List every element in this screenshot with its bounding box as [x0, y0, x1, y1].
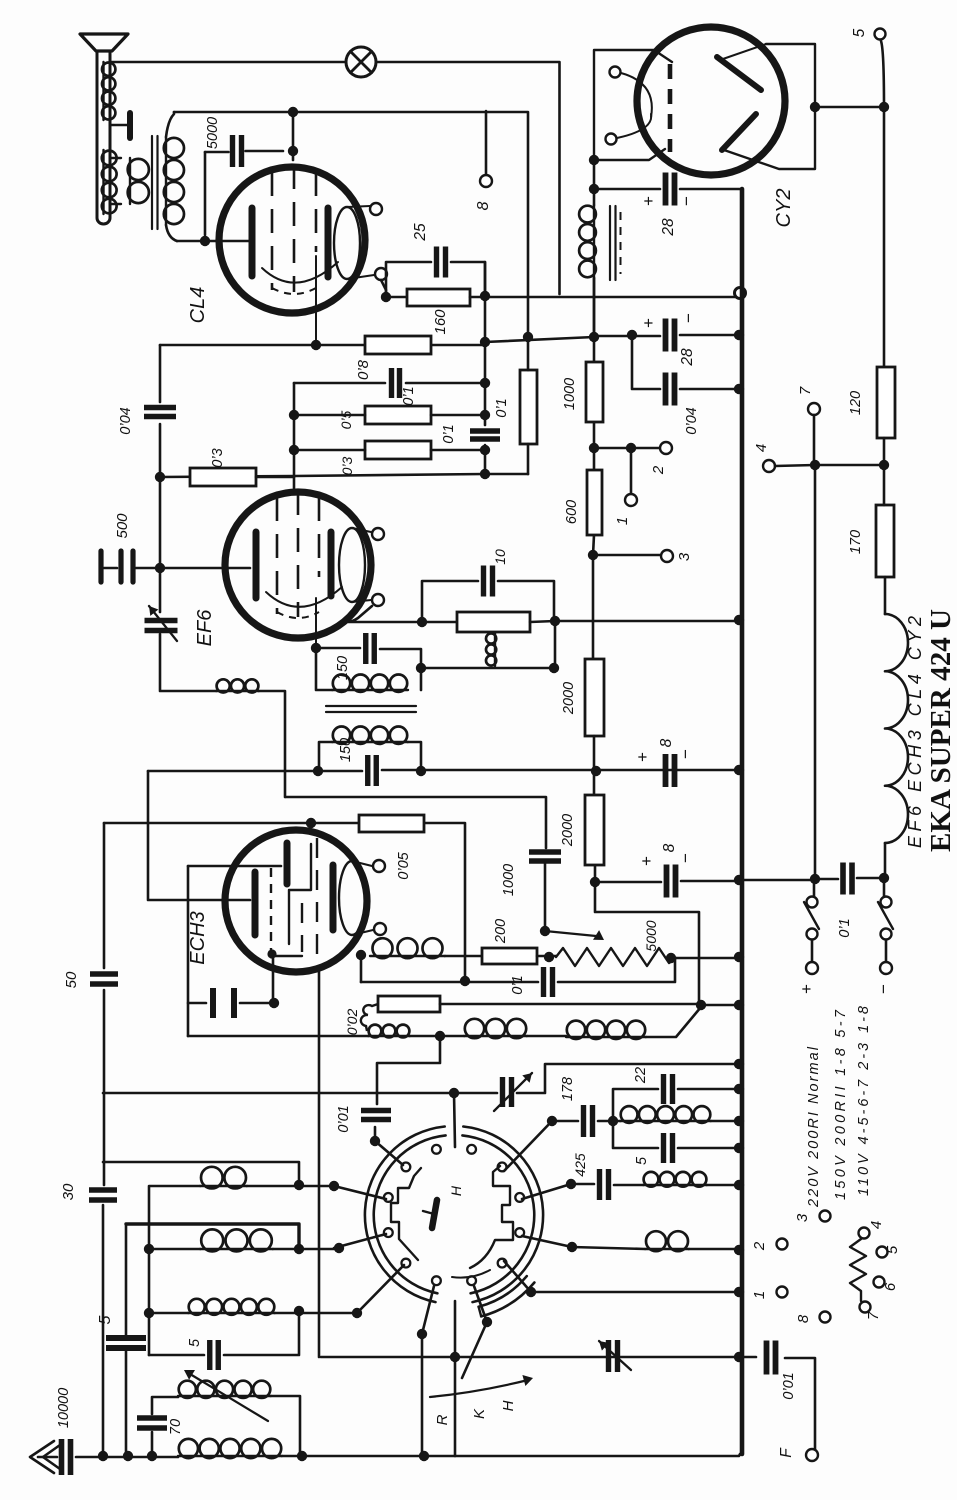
svg-text:1000: 1000	[562, 378, 578, 410]
node 2000 bottom rail	[591, 766, 601, 776]
wire lamp to heater drop line	[376, 62, 560, 294]
wire IF2 primary left riser	[316, 648, 332, 690]
heater chain bumps	[885, 614, 908, 843]
node 318/771	[313, 766, 323, 776]
node 815/879	[810, 874, 820, 884]
wire screen rail y=295	[470, 296, 740, 299]
wire CY2 to terminal 5 line	[815, 106, 884, 109]
svg-text:30: 30	[60, 1183, 77, 1200]
variable coil arrow	[190, 1374, 268, 1421]
band switch right cam	[470, 1166, 513, 1268]
node 160/477	[155, 472, 165, 482]
capacitor 178 wire	[552, 1120, 613, 1123]
node CL4 internal drop	[311, 340, 321, 350]
svg-text:H: H	[448, 1185, 464, 1196]
loudspeaker LS1 cone	[80, 34, 128, 51]
svg-text:425: 425	[572, 1153, 588, 1177]
wire cap 0.04 HT	[632, 335, 739, 389]
node bus/335	[734, 330, 744, 340]
CL4 anode bar	[325, 208, 332, 277]
node 594/448	[589, 443, 599, 453]
capacitor 5a big	[106, 1338, 146, 1348]
ECH3 grid dashes	[270, 868, 272, 950]
node bus/620	[734, 615, 744, 625]
svg-text:5000: 5000	[205, 117, 221, 149]
node 422/1334	[417, 1329, 427, 1339]
svg-text:160: 160	[432, 309, 449, 335]
svg-text:0’02: 0’02	[344, 1009, 360, 1036]
resistor 200	[482, 948, 537, 964]
capacitor 0.04 coupling	[144, 408, 176, 417]
node 485/383	[480, 378, 490, 388]
wire 0.1M leads	[527, 337, 530, 474]
wire EF6 anode to damping resistor	[348, 606, 457, 622]
band switch rotor bar	[432, 1200, 437, 1228]
CL4 internal screen lead to lower node	[315, 256, 317, 345]
svg-text:6: 6	[882, 1282, 899, 1291]
wire T1 primary bottom to CL4 cathode	[166, 225, 177, 241]
mains switch pole B	[883, 878, 886, 896]
capacitor 10000 antenna	[62, 1439, 71, 1475]
svg-text:4: 4	[868, 1221, 885, 1229]
wire AVC rail y=475	[160, 474, 528, 477]
capacitor 0.1b on riser	[470, 431, 500, 439]
wire grid resistor to EF6 top	[256, 477, 294, 493]
node CY2 cathode corner	[589, 155, 599, 165]
svg-text:0’04: 0’04	[118, 407, 134, 434]
svg-text:70: 70	[168, 1419, 184, 1435]
wire IF2 secondary right riser	[408, 742, 421, 771]
capacitor 50	[90, 974, 118, 984]
svg-text:+: +	[637, 856, 656, 866]
svg-text:10000: 10000	[56, 1388, 72, 1428]
variable antenna coil	[178, 1395, 271, 1397]
svg-text:+: +	[639, 196, 658, 206]
svg-text:EKA SUPER 424 U: EKA SUPER 424 U	[925, 609, 957, 852]
svg-text:2: 2	[650, 465, 667, 475]
CL4 pin circle top	[370, 203, 382, 215]
node 0.1M top	[523, 332, 533, 342]
svg-text:7: 7	[797, 386, 814, 395]
svg-text:−: −	[676, 853, 695, 863]
capacitor 70	[137, 1418, 167, 1428]
svg-text:200: 200	[493, 919, 509, 944]
svg-text:170: 170	[848, 530, 864, 554]
node grid/5000 junction	[288, 146, 298, 156]
node pot right	[666, 953, 676, 963]
wire speaker to dial lamp	[110, 61, 346, 64]
node 884/878	[879, 873, 889, 883]
node 594/189	[589, 184, 599, 194]
wire contact to 0.01 osc cap	[375, 1141, 403, 1165]
resistor 0.02 grid leak	[378, 996, 440, 1012]
svg-text:8: 8	[475, 201, 492, 210]
wire 120 to node4	[883, 438, 886, 465]
resistor 0.3b	[365, 441, 431, 459]
ECH3 pin top	[373, 860, 385, 872]
node 594/337	[589, 332, 599, 342]
mains dropper zigzag	[850, 1239, 866, 1301]
capacitor 22	[664, 1074, 673, 1104]
svg-text:8: 8	[658, 738, 675, 747]
svg-text:150V 200RII 1-8 5-7: 150V 200RII 1-8 5-7	[833, 1009, 849, 1200]
wire ECH3 center lead down to osc rail	[319, 967, 739, 1357]
dial lamp LA1	[346, 47, 376, 77]
node 485/474	[480, 469, 490, 479]
CL4 grid dashes	[272, 165, 316, 292]
node wiper/1000	[540, 926, 550, 936]
svg-text:0’8: 0’8	[355, 359, 372, 380]
loudspeaker LS1 pole piece	[110, 124, 127, 126]
node 572/1247	[567, 1242, 577, 1252]
terminal + mains	[806, 962, 818, 974]
wire damping resistor right to screen feed	[530, 621, 739, 622]
terminal 3b	[820, 1211, 831, 1222]
node ECH3 top	[306, 818, 316, 828]
wire cathode bias rail y=797 to 1000 cap	[286, 797, 546, 848]
node bus/1089	[734, 1084, 744, 1094]
CY2 pin bottom	[606, 134, 617, 145]
ECH3 cathode bar	[252, 872, 259, 935]
node 274/1003	[269, 998, 279, 1008]
resistor 2000b	[585, 795, 604, 865]
svg-text:F: F	[778, 1447, 795, 1458]
wire x=160 AVC column	[160, 345, 216, 691]
IF transformer IF2 secondary	[332, 741, 408, 743]
node 299/1311	[294, 1306, 304, 1316]
terminal 8	[480, 175, 492, 187]
wire x=149 column	[148, 1249, 151, 1355]
resistor 160	[407, 289, 470, 306]
node 128/1456	[123, 1451, 133, 1461]
CY2 anode top lead	[720, 44, 766, 60]
node 465/981	[460, 976, 470, 986]
wire 0.02 right to bias node	[440, 1003, 701, 1006]
node stack 450 left	[289, 445, 299, 455]
node 593/555	[588, 550, 598, 560]
EF6 beam arc	[266, 587, 342, 607]
output transformer T1 primary winding	[165, 137, 167, 225]
node 595/882	[590, 877, 600, 887]
svg-text:−: −	[677, 196, 696, 206]
capacitor 0.01 osc	[361, 1111, 391, 1120]
wire variable coil branch	[152, 1396, 300, 1456]
capacitor 5 trap	[664, 1133, 673, 1163]
osc coil c	[566, 1036, 646, 1038]
svg-text:0’3: 0’3	[339, 456, 355, 475]
capacitor 28a	[666, 173, 675, 206]
wire resistor 0.3b leads	[294, 449, 485, 452]
ECH3 anode bar	[330, 865, 337, 930]
EF6 grid dashes	[277, 491, 319, 617]
svg-text:0’01: 0’01	[336, 1105, 352, 1132]
wire band rail y=1162	[103, 1162, 299, 1185]
svg-text:1: 1	[751, 1291, 768, 1299]
capacitor 10	[484, 566, 493, 597]
svg-text:0’01: 0’01	[781, 1372, 797, 1399]
node 160/568	[155, 563, 165, 573]
terminal 5 lead	[881, 41, 884, 107]
CL4 anode top-cap lead	[347, 206, 370, 207]
svg-text:−: −	[679, 313, 698, 323]
node bus/1005	[734, 1000, 744, 1010]
wire contact to coil2	[522, 1236, 572, 1247]
svg-text:7: 7	[865, 1311, 882, 1320]
node bus/957	[734, 952, 744, 962]
terminal 1	[625, 494, 637, 506]
ECH3 inner cathode lead	[274, 955, 302, 957]
svg-text:EF6 ECH3 CL4 CY2: EF6 ECH3 CL4 CY2	[905, 616, 925, 848]
resistor 0.5	[365, 406, 431, 424]
CL4 anode pin lead	[347, 275, 374, 279]
CL4 cathode bar	[249, 208, 256, 276]
svg-text:22: 22	[633, 1067, 649, 1084]
node 149/1313	[144, 1308, 154, 1318]
oscillator trimmer capacitor	[609, 1340, 618, 1372]
loudspeaker LS1 field winding	[129, 158, 131, 204]
wire choke bottom column x=594	[593, 278, 594, 659]
svg-text:0’5: 0’5	[338, 410, 354, 429]
tube ECH3 envelope	[225, 830, 367, 972]
wire CL4 grid-return y=345	[160, 344, 485, 347]
node screen rail to HT bus	[735, 288, 746, 299]
node 815/465	[810, 460, 820, 470]
wire bias to bus	[701, 1004, 739, 1007]
band switch drum outer ring	[463, 1127, 543, 1303]
EF6 cathode coil wire	[216, 690, 259, 692]
resistor 170	[876, 505, 894, 577]
band coil 1	[200, 1185, 247, 1187]
wire 5 branch	[613, 1121, 739, 1148]
wire terminal 1 drop	[630, 448, 633, 494]
terminal 8 drop wire	[485, 111, 488, 174]
wire x=424 column	[421, 1334, 424, 1456]
capacitor 425	[600, 1169, 609, 1200]
band switch inner arc	[452, 1270, 490, 1278]
node 0.8 right	[480, 337, 490, 347]
wire 200 to pot	[537, 955, 556, 958]
IF wave-trap coil	[620, 1120, 711, 1122]
wire ECH3 triode anode drop	[360, 955, 363, 982]
node 454/1093	[449, 1088, 459, 1098]
wire terminal 4 row	[775, 465, 884, 466]
IF choke winding under resistor	[494, 633, 496, 666]
resistor 120	[877, 367, 895, 438]
node bus/1358	[734, 1352, 744, 1362]
capacitor 0.1 osc	[544, 967, 553, 997]
terminal 2	[660, 442, 672, 454]
loudspeaker LS1 voice coil upper	[102, 62, 104, 120]
node 531/1292	[526, 1287, 536, 1297]
svg-text:5: 5	[187, 1338, 203, 1347]
svg-text:8: 8	[661, 843, 678, 852]
IF transformer IF2 primary	[332, 689, 408, 691]
node 440/1036	[435, 1031, 445, 1041]
wire antenna bottom rail	[38, 1454, 740, 1457]
capacitor 500 to chassis	[98, 551, 103, 582]
capacitor 150a wire	[316, 648, 421, 690]
padder trimmer capacitor	[503, 1077, 512, 1107]
wire terminal 5 column	[883, 107, 886, 367]
node 613/1121	[608, 1116, 618, 1126]
wire IF2 secondary left riser	[319, 742, 332, 771]
EF6 pin bottom lead	[352, 600, 371, 602]
svg-text:+: +	[639, 318, 658, 328]
capacitor 150a	[366, 633, 375, 664]
node 571/1184	[566, 1179, 576, 1189]
wire choke bottom	[593, 278, 596, 337]
svg-text:2000: 2000	[560, 814, 576, 847]
svg-text:H: H	[500, 1400, 517, 1411]
wire drum top feed	[454, 1093, 455, 1147]
wire 595 to bias corner	[595, 882, 699, 1005]
svg-text:5: 5	[97, 1315, 114, 1324]
node 552/1121	[547, 1116, 557, 1126]
svg-text:178: 178	[560, 1077, 576, 1101]
tube CL4 envelope	[219, 167, 365, 313]
node 357/1313	[352, 1308, 362, 1318]
capacitor 0.01 output	[767, 1341, 776, 1375]
svg-text:220V 200RI Normal: 220V 200RI Normal	[806, 1046, 822, 1208]
wire contact to IF 178	[504, 1121, 552, 1171]
node 632/335	[627, 330, 637, 340]
svg-text:25: 25	[412, 223, 429, 242]
wire terminal 7 drop	[813, 415, 816, 465]
wire coil b-c link	[410, 1035, 566, 1038]
resistor 0.1 vertical	[520, 370, 537, 444]
node 485/450	[480, 445, 490, 455]
wire y=881 cap 8b	[595, 881, 739, 882]
padding coil band1	[643, 1184, 707, 1186]
oscillator coil row y=1036	[368, 1035, 410, 1037]
svg-text:4: 4	[753, 444, 770, 452]
svg-text:0’05: 0’05	[396, 851, 412, 879]
svg-text:50: 50	[63, 971, 80, 988]
node 152/1456	[147, 1451, 157, 1461]
trimmer capacitor EF6 cathode	[145, 621, 178, 631]
CL4 pin circle bottom	[375, 268, 387, 280]
capacitor 8a electrolytic	[666, 754, 675, 787]
svg-text:120: 120	[848, 391, 864, 415]
capacitor 178	[584, 1105, 593, 1137]
svg-text:+: +	[797, 984, 816, 994]
terminal 2b	[777, 1239, 788, 1250]
capacitor 0.01 output wire	[740, 1357, 815, 1449]
node 302/1456	[297, 1451, 307, 1461]
EF6 pin top	[372, 528, 384, 540]
node 339/1248	[334, 1243, 344, 1253]
wire osc grid rail y=1093	[103, 1064, 739, 1093]
node 375/1141	[370, 1136, 380, 1146]
node CL4 grid top	[288, 107, 298, 117]
wire cathode into CL4	[177, 240, 250, 243]
terminal 3	[661, 550, 673, 562]
IF2 core	[326, 706, 416, 712]
wire terminal 2 feed	[594, 447, 660, 450]
wire heater bottom	[884, 843, 887, 878]
resistor 2000a	[585, 659, 604, 736]
wire 2000a to rail	[593, 736, 596, 771]
node 421/771	[416, 766, 426, 776]
wire contact to antenna column	[422, 1286, 434, 1334]
terminal - mains	[880, 962, 892, 974]
capacitor 10 bypass wire	[422, 581, 554, 622]
svg-text:0’1: 0’1	[837, 918, 853, 937]
wire coil c to bias node	[646, 1007, 701, 1037]
wire stack left riser x=294	[293, 383, 296, 477]
node 487/1322	[482, 1317, 492, 1327]
ECH3 hexode grid bar	[284, 843, 291, 884]
capacitor 5b	[210, 1340, 219, 1370]
wire padding feed y=1224 thick	[126, 1224, 299, 1249]
node 555/621	[550, 616, 560, 626]
tube EF6 envelope	[225, 492, 371, 638]
wire cap28a	[594, 189, 742, 200]
node 485/415	[480, 410, 490, 420]
HT bus vertical	[740, 189, 745, 1454]
band switch rotor sector stub	[479, 1276, 527, 1307]
capacitor 28b	[666, 319, 675, 352]
resistor 600	[587, 470, 602, 535]
wire band coil 3 leads	[149, 1312, 357, 1315]
svg-text:3: 3	[794, 1213, 811, 1222]
resistor 0.05	[359, 815, 424, 832]
node bus/1121	[734, 1116, 744, 1126]
svg-text:0’1: 0’1	[510, 975, 526, 994]
wire contact to band1	[334, 1186, 386, 1199]
CY2 anode bar top	[717, 57, 761, 90]
wire 2000b column	[594, 771, 595, 882]
EF6 anode sleeve oval	[339, 528, 365, 602]
potentiometer 5000 zigzag	[556, 948, 676, 966]
EF6 cathode bar	[253, 532, 260, 598]
loudspeaker LS1 voice coil lower	[102, 150, 104, 214]
capacitor ECH3 oscillator grid	[213, 988, 234, 1018]
EF6 anode top lead	[352, 528, 371, 532]
wire ECH3 top feed y=823	[104, 823, 465, 981]
svg-text:−: −	[676, 749, 695, 759]
node anode/cap25 left	[381, 292, 391, 302]
svg-text:CY2: CY2	[773, 189, 795, 228]
svg-text:28: 28	[679, 348, 696, 367]
svg-text:600: 600	[564, 500, 580, 524]
CY2 cathode dashes	[668, 64, 673, 152]
svg-text:CL4: CL4	[187, 287, 209, 324]
node bus/770	[734, 765, 744, 775]
node bus/880	[734, 875, 744, 885]
node 884/107	[879, 102, 889, 112]
node stack 415 left	[289, 410, 299, 420]
node 884/465	[879, 460, 889, 470]
capacitor 0.04 HT	[666, 373, 675, 406]
node 554/668	[549, 663, 559, 673]
CY2 anode bar bottom	[722, 114, 756, 150]
capacitor 8b	[667, 865, 676, 898]
resistor 1000	[586, 362, 603, 422]
capacitor 150b in rail	[368, 755, 377, 786]
svg-text:1: 1	[614, 517, 631, 525]
CY2 left shield	[594, 50, 672, 160]
node ECH3 triode anode	[356, 950, 366, 960]
node 299/1249	[294, 1244, 304, 1254]
damping resistor (anode load)	[457, 612, 530, 632]
terminal 4b	[859, 1228, 870, 1239]
wire x=148 from rail to ECH3 grid	[148, 771, 250, 900]
wire left column x=103	[103, 823, 104, 1456]
node bias 701/1005	[696, 1000, 706, 1010]
svg-text:0’1: 0’1	[401, 386, 417, 405]
terminal 7	[808, 403, 820, 415]
